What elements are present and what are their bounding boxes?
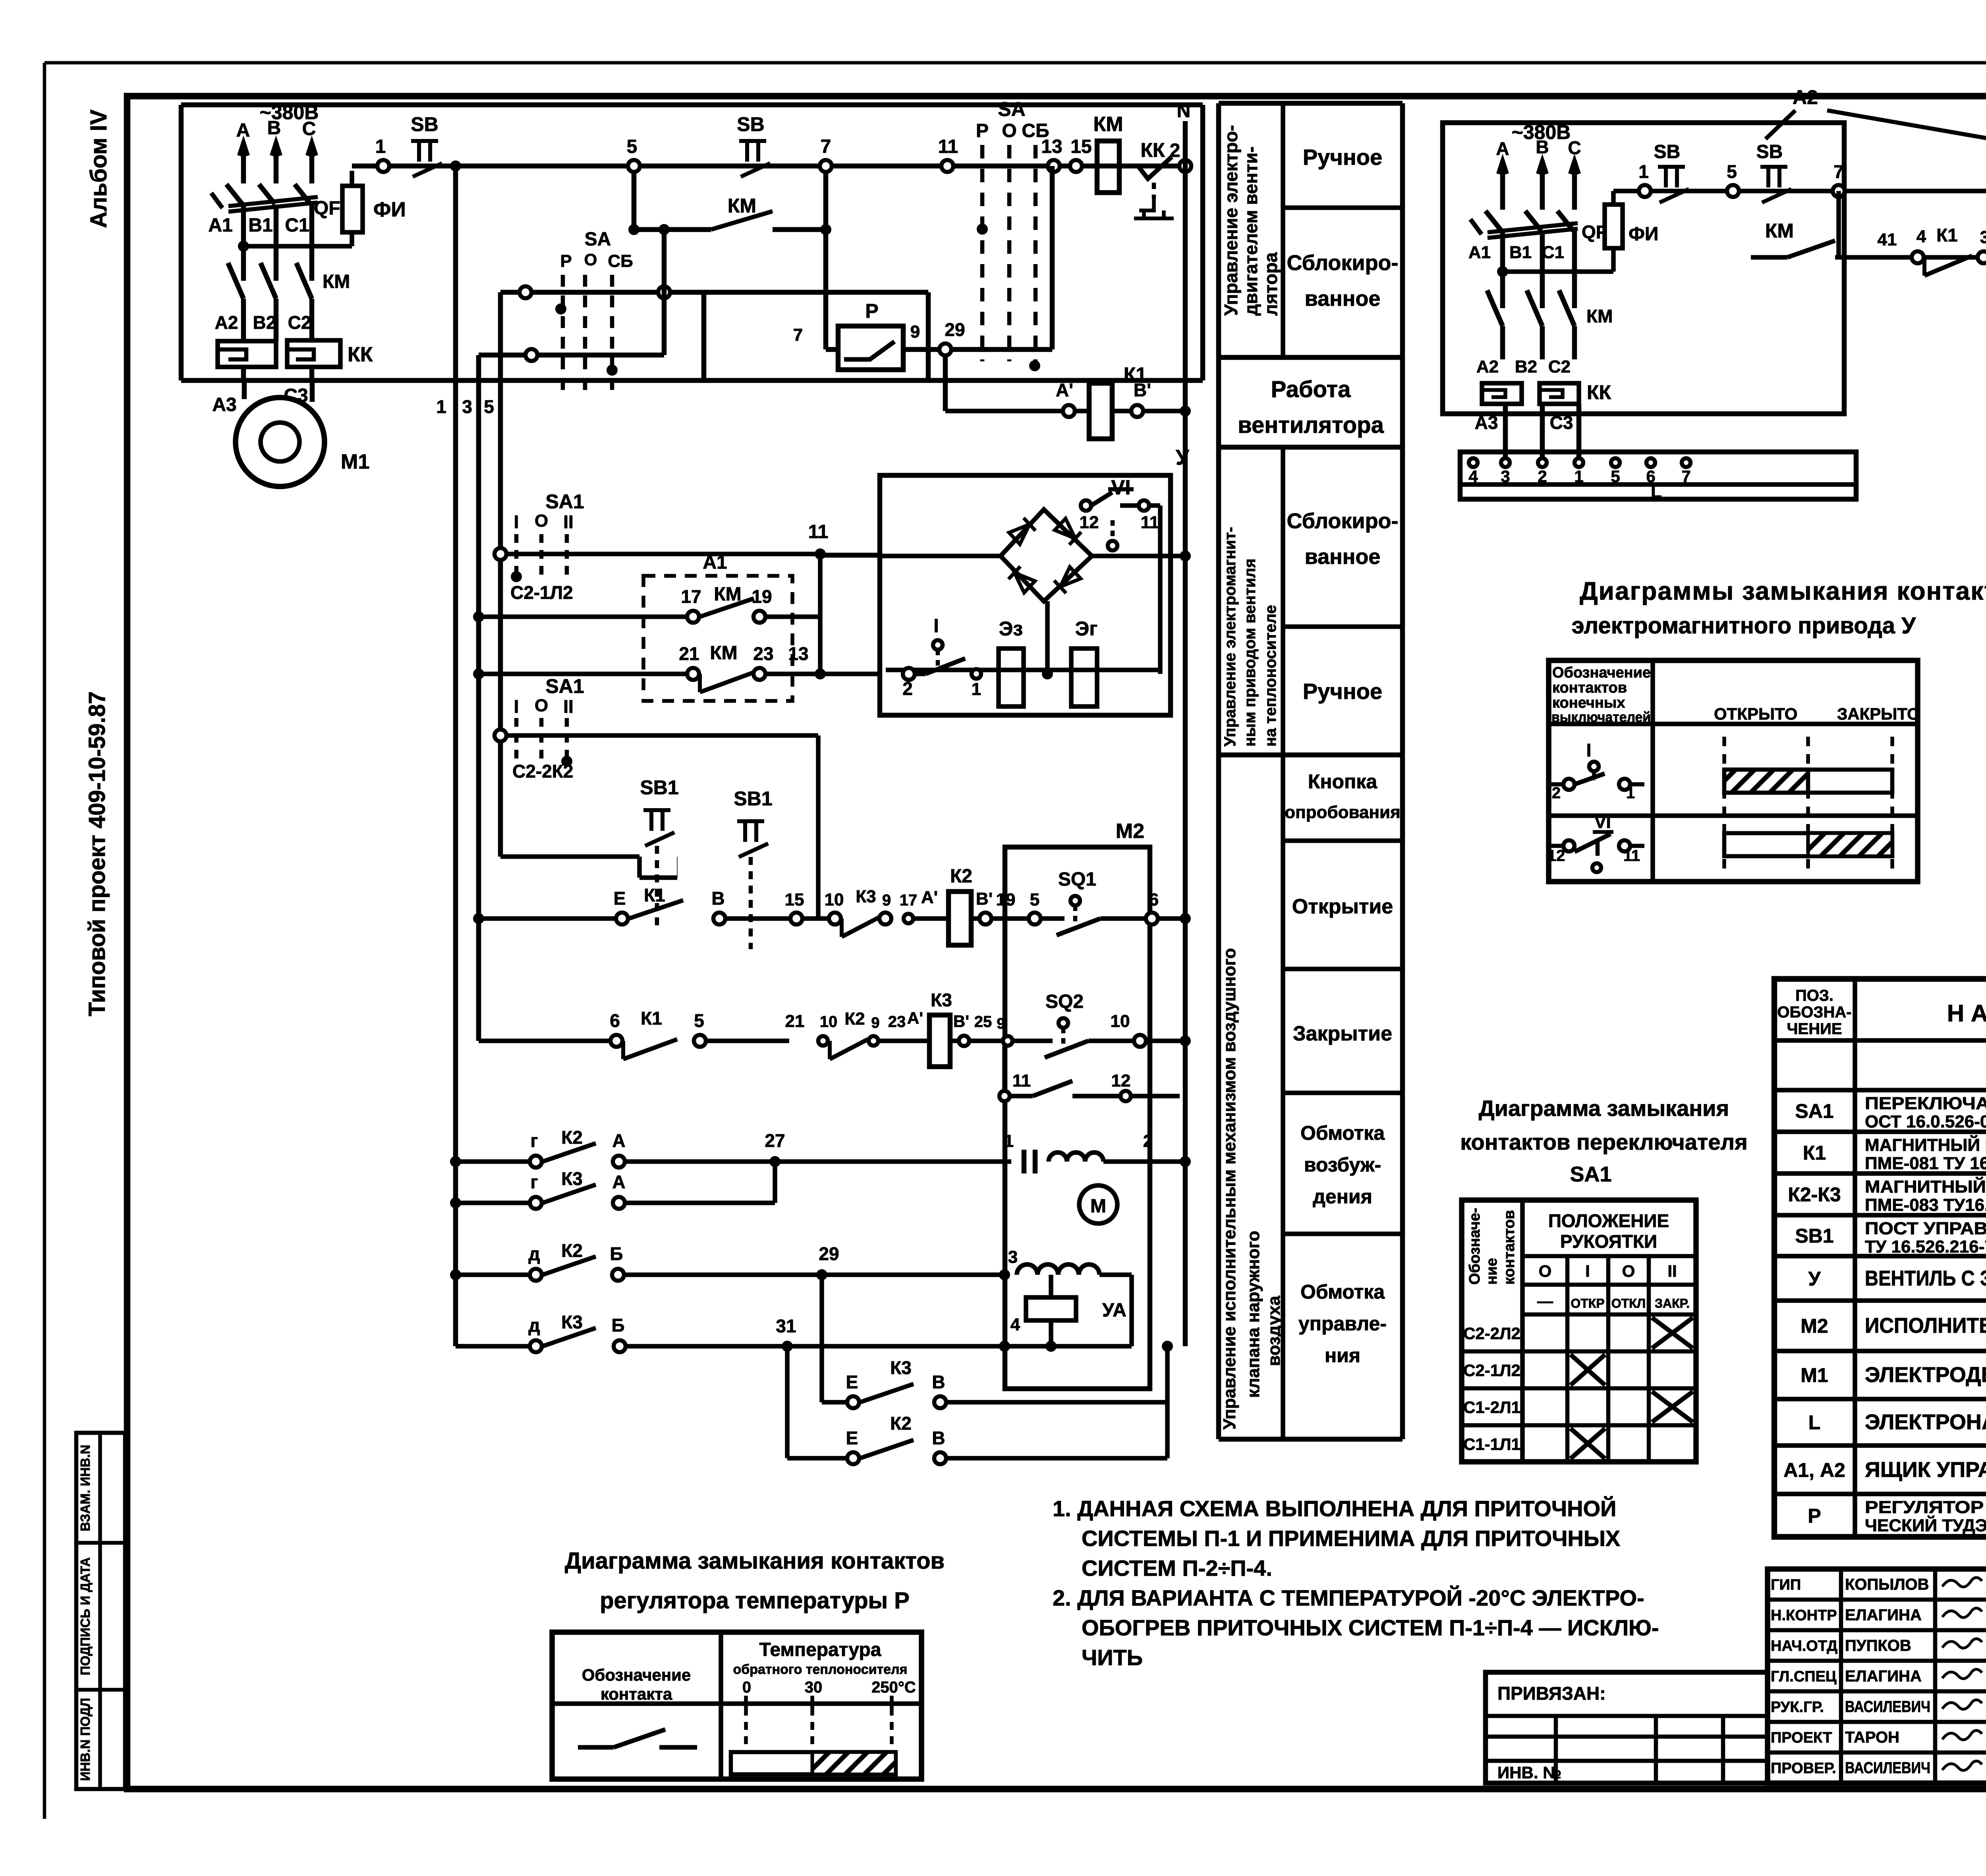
test button I contact (933, 640, 943, 650)
svg-text:ПРОВЕР.: ПРОВЕР. (1771, 1760, 1836, 1777)
svg-text:Р: Р (560, 251, 572, 271)
diode V4 (1054, 566, 1081, 593)
svg-text:1: 1 (1004, 1131, 1014, 1151)
svg-text:ВЕНТИЛЬ С ЭЛЕКТРОМАГНИТНЫМ ПРИ: ВЕНТИЛЬ С ЭЛЕКТРОМАГНИТНЫМ ПРИВОДОМ (1865, 1266, 1986, 1290)
relay coil K3 (929, 1015, 950, 1067)
svg-text:К2: К2 (561, 1240, 583, 1261)
svg-text:К2: К2 (950, 866, 972, 887)
svg-text:В: В (711, 888, 724, 909)
svg-text:ОБОГРЕВ ПРИТОЧНЫХ СИСТЕМ П-: ОБОГРЕВ ПРИТОЧНЫХ СИСТЕМ П-1÷П-4 — ИСКЛЮ… (1082, 1615, 1659, 1640)
svg-text:КМ: КМ (1765, 220, 1794, 242)
svg-text:М1: М1 (341, 450, 369, 473)
fuse FU (ФИ) (350, 232, 354, 246)
wire: SA1 lower rung (506, 733, 818, 738)
svg-text:1: 1 (972, 679, 981, 699)
svg-text:4: 4 (1916, 227, 1926, 246)
svg-text:0: 0 (742, 1679, 751, 1696)
contact KM 17-19 (473, 611, 484, 622)
limit contact 11-12 (1002, 1046, 1007, 1096)
contact K2 NC (828, 1041, 832, 1059)
svg-text:вентилятора: вентилятора (1238, 412, 1384, 438)
svg-text:В': В' (976, 889, 993, 909)
svg-text:А': А' (907, 1009, 923, 1027)
svg-text:12: 12 (1547, 847, 1565, 865)
svg-text:К3: К3 (561, 1168, 583, 1189)
brake coil УА (1026, 1297, 1076, 1320)
terminal on bus (495, 548, 506, 560)
svg-text:Диаграмма замыкания контактов: Диаграмма замыкания контактов (565, 1548, 945, 1574)
terminal 13 (1048, 160, 1060, 172)
terminal B' (1131, 405, 1143, 417)
svg-text:В': В' (953, 1012, 969, 1031)
svg-text:ЗАКРЫТО: ЗАКРЫТО (1837, 704, 1920, 723)
svg-text:контактов: контактов (1552, 679, 1627, 696)
terminal A' (1063, 405, 1075, 417)
svg-text:ОТКР: ОТКР (1571, 1296, 1604, 1310)
svg-text:К1: К1 (1936, 225, 1958, 245)
valve unit Y enclosure (880, 475, 1171, 715)
svg-text:Б: Б (610, 1243, 623, 1264)
contact KM aux (711, 211, 773, 230)
button SB (stop) (739, 139, 766, 143)
svg-text:ОБОЗНА-: ОБОЗНА- (1777, 1004, 1851, 1021)
svg-text:ОСТ 16.0.526-001-77: ОСТ 16.0.526-001-77 ИСП. IV (1865, 1112, 1986, 1131)
svg-text:ПЕРЕКЛЮЧАТЕЛЬ ПАКЕТНЫЙ ПП2-10/: ПЕРЕКЛЮЧАТЕЛЬ ПАКЕТНЫЙ ПП2-10/Н2 У356 (1865, 1093, 1986, 1113)
junction 11 (815, 548, 826, 560)
wire phase (1500, 160, 1505, 210)
svg-text:О: О (584, 250, 597, 269)
svg-text:регулятора температуры Р: регулятора температуры Р (600, 1588, 910, 1614)
solenoid coil Эг (1071, 648, 1097, 706)
svg-text:дения: дения (1313, 1185, 1372, 1208)
junction (1497, 266, 1508, 277)
thermal contact KK (1119, 164, 1138, 168)
svg-text:21: 21 (679, 643, 699, 664)
label column table (1216, 103, 1221, 1439)
SA position dot (555, 303, 566, 315)
terminal (525, 349, 537, 361)
svg-text:К2: К2 (890, 1413, 912, 1434)
svg-text:РЕГУЛЯТОР ТЕМПЕРАТУРЫ ДИЛАТОМ: РЕГУЛЯТОР ТЕМПЕРАТУРЫ ДИЛАТОМЕТРИ- (1865, 1498, 1986, 1517)
svg-text:К2-К3: К2-К3 (1788, 1183, 1841, 1206)
svg-text:11: 11 (938, 136, 958, 157)
wire phase (1572, 160, 1577, 210)
svg-text:~380В: ~380В (260, 101, 319, 124)
svg-text:А': А' (921, 888, 938, 907)
wire to fuse (243, 244, 352, 249)
contact K1 NC blade (629, 900, 683, 919)
wire: field winding rung (450, 1156, 461, 1167)
svg-text:ПОСТ УПРАВЛЕНИЯ КНОПОЧНЫЙ ПКЕ: ПОСТ УПРАВЛЕНИЯ КНОПОЧНЫЙ ПКЕ 222-2У2 (1865, 1218, 1986, 1238)
bus 5 (498, 292, 503, 857)
svg-text:2: 2 (902, 678, 913, 699)
wire: rung г-К3-А (450, 1197, 461, 1208)
svg-text:ПРОЕКТ: ПРОЕКТ (1771, 1729, 1832, 1746)
svg-text:Сблокиро-: Сблокиро- (1287, 509, 1398, 533)
svg-text:15: 15 (785, 890, 804, 909)
svg-text:II: II (1667, 1262, 1677, 1280)
button SB (1658, 165, 1685, 169)
wire phase (309, 142, 315, 183)
svg-text:ВЗАМ. ИНВ.N: ВЗАМ. ИНВ.N (78, 1445, 93, 1531)
svg-text:С1: С1 (1542, 243, 1564, 262)
svg-text:ПРИВЯЗАН:: ПРИВЯЗАН: (1497, 1683, 1606, 1704)
svg-text:ТАРОН: ТАРОН (1845, 1729, 1899, 1746)
svg-text:СБ: СБ (1022, 120, 1049, 141)
svg-text:~380В: ~380В (1512, 121, 1571, 143)
svg-text:5: 5 (694, 1010, 704, 1031)
svg-text:Управление исполнительным меха: Управление исполнительным механизмом воз… (1220, 948, 1239, 1430)
svg-text:29: 29 (945, 319, 965, 340)
svg-text:С2-2К2: С2-2К2 (512, 761, 573, 782)
svg-text:SB: SB (1756, 141, 1783, 162)
X mark С2-2Л2 (1652, 1318, 1693, 1348)
svg-text:7: 7 (1833, 161, 1844, 182)
svg-text:М: М (1090, 1196, 1106, 1217)
svg-text:А3: А3 (212, 394, 236, 415)
wire phase (1540, 160, 1545, 210)
svg-text:О: О (535, 511, 548, 531)
inductor above УА (1017, 1264, 1099, 1275)
motor M1 (236, 398, 325, 486)
terminal 15 (1070, 160, 1082, 172)
arrowhead (307, 142, 316, 156)
svg-text:I: I (933, 616, 939, 637)
wire: rung through bridge y=1400 (820, 553, 880, 558)
arrowhead (1498, 160, 1507, 174)
svg-text:31: 31 (776, 1316, 796, 1336)
svg-text:SB1: SB1 (734, 787, 772, 810)
junction (1042, 668, 1053, 679)
junction 13 (815, 668, 826, 679)
wire bridge to rail (1045, 601, 1050, 674)
svg-text:Н А И М Е Н О В А Н И Е: Н А И М Е Н О В А Н И Е (1947, 1000, 1986, 1027)
wire (701, 292, 707, 380)
svg-text:15: 15 (1070, 136, 1092, 157)
selector switch SA dashed lines (980, 145, 985, 361)
wire (1576, 404, 1582, 458)
svg-text:КМ: КМ (323, 271, 350, 292)
contact K1 NC (621, 1041, 625, 1059)
SA position dot (607, 365, 618, 376)
svg-text:г: г (530, 1130, 538, 1151)
svg-text:М1: М1 (1801, 1364, 1828, 1386)
svg-text:контактов переключателя: контактов переключателя (1460, 1129, 1748, 1154)
svg-text:I: I (514, 696, 519, 717)
svg-text:II: II (563, 511, 574, 532)
limit contact VI 12-11 (1081, 500, 1091, 511)
svg-text:КК: КК (1140, 139, 1165, 161)
svg-text:ПМЕ-081 ТУ 16.536.381-7: ПМЕ-081 ТУ 16.536.381-74 (1865, 1154, 1986, 1173)
capacitor (1022, 1150, 1027, 1173)
bar: regulator (731, 1752, 896, 1774)
svg-text:Обозначе-: Обозначе- (1466, 1208, 1483, 1285)
svg-text:Р: Р (1808, 1505, 1821, 1527)
svg-text:С2: С2 (1548, 357, 1571, 376)
svg-text:7: 7 (821, 136, 831, 157)
привязан box (1486, 1672, 1768, 1783)
bus 1 (453, 166, 458, 1346)
fuse FU (ФИ) heater (1611, 248, 1616, 272)
svg-text:Обозначение: Обозначение (582, 1666, 691, 1684)
svg-text:г: г (530, 1172, 538, 1192)
terminal 1 (1639, 185, 1651, 197)
contactor KM main contacts heater (1487, 290, 1503, 326)
svg-text:1: 1 (1626, 784, 1635, 802)
wire: section divider / box A1 bottom (181, 378, 1203, 383)
svg-text:10: 10 (820, 1013, 838, 1031)
wire: top control rail (352, 164, 1185, 169)
contact symbol (578, 1745, 614, 1750)
wire: rung open (E-K1-B-15-10-K3-9-17-A-K2-B-19-5-SQ1-6) (473, 913, 484, 924)
svg-text:25: 25 (974, 1013, 992, 1031)
svg-text:возбуж-: возбуж- (1304, 1154, 1381, 1176)
svg-text:7: 7 (1681, 467, 1690, 486)
svg-text:ЭЛЕКТРОДВИГАТЕЛЬ: ЭЛЕКТРОДВИГАТЕЛЬ (1865, 1363, 1986, 1387)
actuator M2 enclosure (1005, 847, 1150, 1389)
N bus (1183, 121, 1188, 1346)
svg-text:ПОЛОЖЕНИЕ: ПОЛОЖЕНИЕ (1548, 1210, 1669, 1231)
svg-text:В2: В2 (1515, 357, 1537, 376)
svg-text:ПУПКОВ: ПУПКОВ (1845, 1637, 1911, 1654)
wire (1158, 506, 1163, 674)
svg-text:9: 9 (997, 1015, 1005, 1032)
terminal (520, 286, 531, 298)
svg-text:Р: Р (865, 300, 878, 322)
svg-text:11: 11 (808, 521, 829, 542)
svg-text:О: О (1539, 1262, 1552, 1280)
svg-text:ВАСИЛЕВИЧ: ВАСИЛЕВИЧ (1845, 1698, 1930, 1716)
wire: rung д-К3-Б-31-4 (456, 1344, 530, 1349)
circuit breaker QF (1486, 211, 1501, 231)
svg-text:Обмотка: Обмотка (1300, 1122, 1385, 1144)
svg-text:клапана наружного: клапана наружного (1244, 1231, 1263, 1398)
svg-text:С2: С2 (288, 312, 311, 333)
svg-text:управле-: управле- (1298, 1312, 1387, 1335)
svg-text:выключателей: выключателей (1551, 709, 1651, 725)
SA position dot (1029, 360, 1040, 371)
contact K2 (860, 1440, 914, 1458)
svg-text:Эг: Эг (1075, 618, 1097, 640)
svg-text:27: 27 (765, 1130, 785, 1151)
relay coil K2 (949, 892, 971, 945)
svg-text:I: I (514, 511, 519, 532)
svg-text:1: 1 (1574, 467, 1583, 486)
svg-text:L: L (1651, 481, 1662, 502)
svg-text:9: 9 (882, 892, 891, 909)
svg-text:электромагнитного привода У: электромагнитного привода У (1572, 613, 1916, 639)
svg-text:SA: SA (585, 229, 611, 250)
svg-text:12: 12 (1111, 1071, 1131, 1090)
svg-text:SB: SB (737, 113, 764, 135)
wire: bus to buttons (500, 854, 639, 859)
svg-text:СБ: СБ (608, 251, 633, 271)
svg-text:Р: Р (976, 120, 989, 141)
wire (818, 554, 823, 674)
svg-text:Ручное: Ручное (1303, 145, 1382, 170)
svg-text:Типовой проект 409-10-59.87: Типовой проект 409-10-59.87 (84, 691, 110, 1016)
svg-text:41: 41 (1878, 230, 1897, 249)
svg-text:Б: Б (611, 1315, 624, 1336)
svg-text:23: 23 (888, 1013, 906, 1031)
svg-text:17: 17 (900, 892, 918, 909)
svg-text:SB1: SB1 (1795, 1225, 1833, 1247)
svg-text:А1, А2: А1, А2 (1783, 1459, 1845, 1481)
svg-text:ЧИТЬ: ЧИТЬ (1082, 1645, 1143, 1670)
circuit breaker QF (226, 184, 242, 204)
svg-text:О: О (535, 696, 548, 715)
svg-text:3: 3 (1008, 1247, 1018, 1267)
wire: brake winding rung (450, 1269, 461, 1280)
svg-text:А1: А1 (208, 215, 232, 236)
svg-text:К2: К2 (561, 1127, 583, 1148)
svg-text:ИСПОЛНИТЕЛЬНЫЙ МЕХАНИЗМ МЭО: ИСПОЛНИТЕЛЬНЫЙ МЕХАНИЗМ МЭО ~220В (1865, 1313, 1986, 1338)
wire (1540, 404, 1545, 458)
svg-text:Е: Е (846, 1428, 858, 1448)
svg-text:30: 30 (805, 1679, 823, 1696)
svg-text:29: 29 (819, 1243, 839, 1264)
svg-text:С2-1Л2: С2-1Л2 (1463, 1361, 1520, 1380)
X mark С2-1Л2 (1571, 1355, 1605, 1385)
svg-text:ния: ния (1325, 1344, 1360, 1366)
junction on N bus (1180, 405, 1191, 417)
svg-text:6: 6 (610, 1010, 620, 1031)
svg-text:Н.КОНТР: Н.КОНТР (1771, 1607, 1837, 1624)
svg-text:НАЧ.ОТД: НАЧ.ОТД (1771, 1638, 1837, 1654)
svg-text:С1-2Л1: С1-2Л1 (1463, 1398, 1520, 1417)
svg-text:23: 23 (753, 643, 773, 664)
svg-text:SQ2: SQ2 (1045, 991, 1084, 1012)
svg-text:7: 7 (793, 325, 803, 345)
svg-text:РУКОЯТКИ: РУКОЯТКИ (1560, 1231, 1657, 1252)
svg-text:КМ: КМ (714, 584, 741, 605)
svg-text:контакта: контакта (601, 1685, 672, 1703)
svg-text:А': А' (1056, 380, 1073, 400)
terminal strip L (1460, 452, 1856, 499)
svg-text:2. ДЛЯ ВАРИАНТА С ТЕМПЕРАТУ: 2. ДЛЯ ВАРИАНТА С ТЕМПЕРАТУРОЙ -20°С ЭЛЕ… (1053, 1585, 1644, 1610)
wire (309, 367, 315, 380)
wire: rung Е-К2-В (785, 1346, 790, 1458)
svg-text:SA1: SA1 (1570, 1162, 1611, 1186)
X mark С1-2Л1 (1652, 1392, 1693, 1422)
rectifier bridge VI (1001, 510, 1092, 601)
bar: valve open row (1724, 770, 1892, 793)
wire: KM self-hold rung (632, 172, 637, 230)
wire (241, 367, 246, 380)
svg-text:К3: К3 (931, 990, 952, 1010)
terminal 11 (941, 160, 953, 172)
wire phase (274, 142, 279, 183)
wire: lower heater rail (1839, 255, 1986, 260)
table: regulator P (552, 1632, 922, 1779)
title block signature table (1768, 1569, 1986, 1783)
wire: heater control rail (1613, 189, 1986, 193)
svg-text:А2: А2 (1476, 357, 1499, 376)
svg-text:КМ: КМ (1093, 113, 1123, 136)
svg-text:А: А (612, 1130, 625, 1151)
svg-text:L: L (1808, 1411, 1821, 1434)
contact K1 NC (1922, 257, 1926, 276)
svg-text:1: 1 (1638, 161, 1649, 182)
wire: selector rung 736 (500, 290, 928, 295)
svg-text:А3: А3 (1475, 412, 1498, 433)
svg-text:10: 10 (825, 890, 844, 909)
svg-text:лятора: лятора (1260, 252, 1281, 316)
svg-text:17: 17 (681, 586, 701, 607)
svg-text:О: О (1622, 1262, 1635, 1280)
svg-text:В2: В2 (253, 312, 276, 333)
svg-text:А: А (612, 1172, 625, 1192)
svg-text:Эз: Эз (999, 618, 1023, 640)
terminal 5 (628, 160, 640, 172)
svg-text:Е: Е (614, 888, 626, 909)
svg-text:Обмотка: Обмотка (1300, 1281, 1385, 1303)
parts list table (1774, 979, 1986, 1537)
svg-text:ТУ 16.526.216-78: ТУ 16.526.216-78 (1865, 1237, 1986, 1256)
svg-text:N: N (1177, 100, 1191, 122)
svg-text:Обозначение: Обозначение (1552, 664, 1651, 681)
svg-text:С1-1Л1: С1-1Л1 (1463, 1435, 1520, 1453)
svg-text:5: 5 (484, 396, 494, 417)
svg-text:19: 19 (996, 890, 1016, 909)
svg-text:Кнопка: Кнопка (1308, 770, 1377, 793)
svg-text:Температура: Температура (759, 1639, 881, 1660)
terminal 7 (820, 160, 832, 172)
svg-text:Ручное: Ручное (1303, 679, 1382, 704)
svg-text:С3: С3 (1550, 412, 1573, 433)
solenoid coil Эз (999, 648, 1024, 706)
svg-text:С2-2Л2: С2-2Л2 (1463, 1324, 1520, 1343)
svg-text:Альбом IV: Альбом IV (86, 109, 112, 228)
svg-text:ванное: ванное (1305, 545, 1381, 569)
svg-text:21: 21 (785, 1011, 805, 1031)
ground symbol (1134, 199, 1174, 218)
thermal relay KK heaters (218, 341, 276, 367)
arrowhead (272, 142, 280, 156)
svg-text:К3: К3 (856, 887, 876, 906)
junction A1 (238, 241, 249, 252)
svg-text:К1: К1 (644, 885, 665, 905)
svg-text:9: 9 (871, 1015, 879, 1031)
wire (816, 735, 821, 919)
terminal 2 (1179, 160, 1191, 172)
svg-text:11: 11 (1012, 1071, 1031, 1090)
wire: regulator P branch (823, 230, 829, 349)
svg-text:SA1: SA1 (545, 490, 584, 513)
temperature regulator P (838, 326, 903, 370)
svg-text:SB1: SB1 (640, 776, 678, 799)
contactor KM main contacts (228, 263, 243, 299)
svg-text:ПОЗ.: ПОЗ. (1795, 987, 1833, 1004)
wire: SA bottom link (969, 347, 1052, 352)
svg-text:Е: Е (846, 1372, 858, 1392)
svg-text:SQ1: SQ1 (1058, 869, 1096, 890)
svg-text:СИСТЕМЫ П-1 И ПРИМЕНИМА ДЛ: СИСТЕМЫ П-1 И ПРИМЕНИМА ДЛЯ ПРИТОЧНЫХ (1082, 1526, 1620, 1551)
bus 3 (476, 355, 481, 1041)
svg-text:ОТКРЫТО: ОТКРЫТО (1714, 704, 1797, 723)
svg-text:4: 4 (1010, 1315, 1020, 1334)
table: valve Y limit contacts (1549, 660, 1918, 882)
svg-text:К1: К1 (641, 1008, 662, 1029)
svg-text:12: 12 (1080, 513, 1099, 532)
svg-text:двигателем венти-: двигателем венти- (1240, 147, 1261, 316)
wire: selector bracket 894 (479, 353, 664, 358)
svg-text:К3: К3 (561, 1312, 583, 1332)
wire phase (241, 142, 246, 183)
svg-text:QF: QF (314, 198, 340, 219)
svg-text:5: 5 (627, 136, 638, 157)
table SA1 (1462, 1200, 1696, 1462)
